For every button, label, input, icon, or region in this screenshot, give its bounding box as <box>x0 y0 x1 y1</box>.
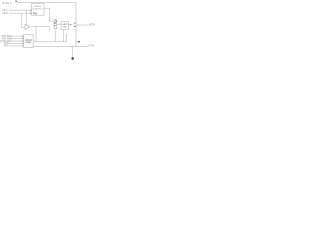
node input A label <box>2 9 8 12</box>
diode D1 tick upper <box>74 22 76 25</box>
node sense 1 label <box>1 36 11 38</box>
node sense 4 label <box>4 43 9 45</box>
current limit text line 2 <box>26 42 31 43</box>
svg-text:PW: PW <box>33 12 38 16</box>
driver U3 box <box>61 22 69 30</box>
wire input A to controller <box>9 9 32 11</box>
ground <box>72 57 74 60</box>
wire input B to controller <box>9 12 32 14</box>
wire transistor to driver box <box>57 24 61 26</box>
pin arrow sense 3 <box>22 40 24 42</box>
wire motor output <box>76 24 88 26</box>
node input B label <box>2 12 8 15</box>
transistor Q1 body rect <box>54 22 57 28</box>
current limit text line 1 <box>25 39 32 40</box>
svg-text:CONTROL: CONTROL <box>32 8 43 10</box>
pin arrow sense 4 <box>22 43 24 45</box>
node sense 3 label <box>0 40 11 43</box>
svg-text:VR B: VR B <box>2 12 8 15</box>
wire sense 4 <box>9 42 24 44</box>
wire branch A down to comparator <box>26 10 28 24</box>
svg-text:DRV: DRV <box>63 26 68 28</box>
transistor Q1 dot pin 2 <box>54 25 55 26</box>
wire sense 2 <box>9 38 24 40</box>
transistor Q1 envelope circle <box>54 20 57 23</box>
wire mid rail <box>33 41 66 43</box>
svg-text:MTR+: MTR+ <box>89 24 96 27</box>
op-amp U2 comparator triangle <box>25 24 30 29</box>
transistor Q1 dot pin 1 <box>54 23 55 24</box>
node B+ supply label <box>3 2 12 5</box>
node motor label <box>89 24 96 27</box>
controller U1 box <box>32 4 45 16</box>
wire top rail from switch to right corner <box>19 1 77 3</box>
svg-text:REF: REF <box>4 46 9 48</box>
pin arrow sense 5 <box>22 45 24 47</box>
wire driver bottom drop 1 <box>63 30 65 42</box>
wire driver bottom drop 2 <box>66 34 68 42</box>
pin arrow driver output <box>70 24 72 26</box>
pin arrow input A <box>30 9 32 11</box>
node sense 5 label <box>4 46 9 48</box>
wire controller output to transistor base <box>44 8 54 21</box>
wire sense 5 <box>9 45 24 47</box>
wire branch B down to comparator <box>22 13 25 28</box>
wire transistor emitter down to rail <box>54 29 56 42</box>
current limit U4 box <box>24 35 34 48</box>
wire bottom rail <box>33 46 88 48</box>
svg-text:MTR-: MTR- <box>88 44 94 47</box>
wire feedback branch down at x=36 <box>35 27 37 42</box>
node sense 2 label <box>1 38 12 40</box>
pin arrow input B <box>30 12 32 14</box>
wire output corner down at x=49.6 <box>49 27 51 32</box>
pin arrow sense 1 <box>22 35 24 37</box>
pin arrow sense 2 <box>22 38 24 40</box>
node capacitor tick label <box>78 41 80 42</box>
wire driver output <box>69 24 71 26</box>
wire main vertical drop at x=76 <box>75 2 77 46</box>
wire sense 3 <box>9 40 24 42</box>
wire ground drop <box>72 47 74 59</box>
switch S1 lever <box>15 1 18 3</box>
wire op-amp output <box>30 26 50 28</box>
svg-text:B+/RL S: B+/RL S <box>3 2 12 5</box>
transistor Q1 dot pin top <box>56 21 57 22</box>
wire sense 1 <box>9 35 24 37</box>
diode D1 tick lower <box>74 25 76 28</box>
node rail end label <box>88 44 94 47</box>
